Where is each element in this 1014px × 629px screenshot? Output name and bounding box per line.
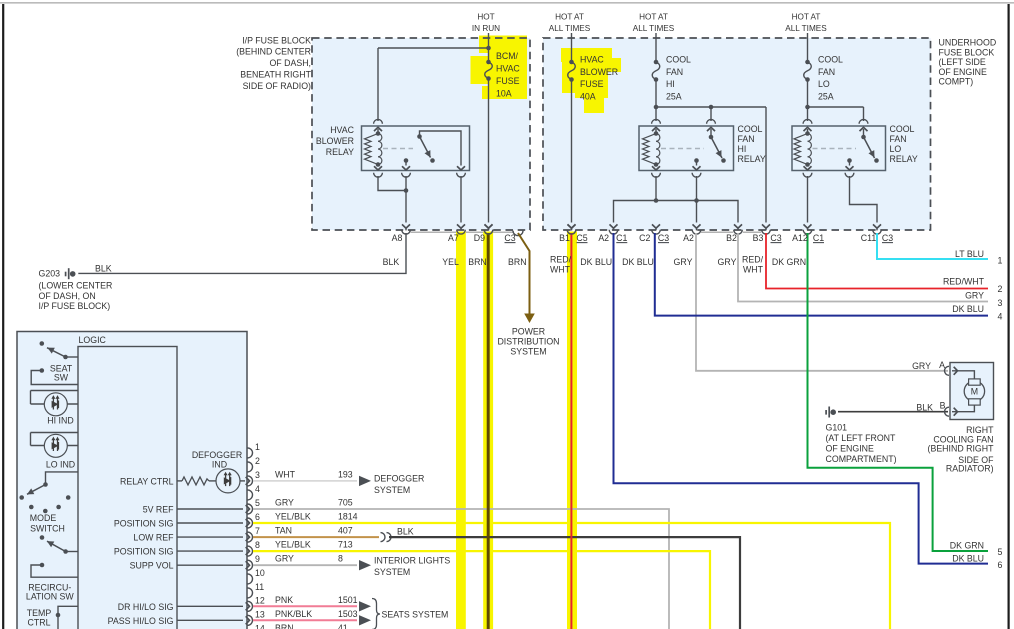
- svg-text:10A: 10A: [496, 88, 512, 98]
- svg-text:RED/WHT: RED/WHT: [943, 276, 985, 286]
- svg-text:POSITION SIG: POSITION SIG: [114, 547, 174, 557]
- svg-text:WHT: WHT: [743, 265, 764, 275]
- svg-text:41: 41: [338, 623, 348, 629]
- svg-text:B: B: [940, 400, 946, 410]
- svg-text:1: 1: [998, 255, 1003, 265]
- svg-text:1503: 1503: [338, 609, 358, 619]
- svg-text:FAN: FAN: [666, 67, 683, 77]
- svg-text:G101: G101: [826, 423, 848, 433]
- svg-text:HOT: HOT: [477, 13, 494, 22]
- svg-text:A2: A2: [598, 233, 609, 243]
- svg-text:BLOWER: BLOWER: [316, 136, 354, 146]
- svg-text:BRN: BRN: [275, 623, 294, 629]
- svg-text:3: 3: [255, 470, 260, 480]
- svg-text:ALL TIMES: ALL TIMES: [633, 24, 675, 33]
- svg-text:I/P FUSE BLOCK: I/P FUSE BLOCK: [242, 35, 311, 45]
- svg-text:C3: C3: [882, 233, 893, 243]
- svg-text:LO: LO: [818, 79, 830, 89]
- svg-text:GRY: GRY: [718, 257, 737, 267]
- svg-text:RELAY: RELAY: [890, 154, 918, 164]
- svg-text:RED/: RED/: [550, 255, 572, 265]
- svg-text:PNK/BLK: PNK/BLK: [275, 609, 312, 619]
- svg-text:LO: LO: [890, 144, 902, 154]
- svg-text:RELAY CTRL: RELAY CTRL: [120, 476, 174, 486]
- svg-text:I/P FUSE BLOCK): I/P FUSE BLOCK): [39, 301, 111, 311]
- svg-text:RED/: RED/: [742, 255, 764, 265]
- svg-text:C2: C2: [639, 233, 650, 243]
- svg-text:UNDERHOOD: UNDERHOOD: [939, 38, 997, 48]
- svg-text:RELAY: RELAY: [326, 147, 354, 157]
- svg-text:COMPT): COMPT): [939, 77, 974, 87]
- svg-text:BLK: BLK: [916, 403, 933, 413]
- svg-text:(BEHIND RIGHT: (BEHIND RIGHT: [928, 443, 995, 453]
- svg-text:ALL TIMES: ALL TIMES: [549, 24, 591, 33]
- svg-text:TAN: TAN: [275, 526, 292, 536]
- svg-text:2: 2: [998, 284, 1003, 294]
- svg-text:COMPARTMENT): COMPARTMENT): [826, 454, 897, 464]
- svg-text:DK BLU: DK BLU: [952, 304, 984, 314]
- svg-text:YEL/BLK: YEL/BLK: [275, 512, 311, 522]
- svg-text:SW: SW: [54, 373, 69, 383]
- svg-text:YEL/BLK: YEL/BLK: [275, 540, 311, 550]
- svg-text:GRY: GRY: [275, 498, 294, 508]
- svg-text:B3: B3: [753, 233, 764, 243]
- svg-text:LT BLU: LT BLU: [955, 249, 984, 259]
- svg-text:BLK: BLK: [397, 527, 414, 537]
- svg-text:RIGHT: RIGHT: [966, 425, 994, 435]
- svg-text:5: 5: [255, 498, 260, 508]
- svg-text:25A: 25A: [666, 92, 682, 102]
- svg-text:OF DASH,: OF DASH,: [269, 58, 311, 68]
- svg-text:SIDE OF RADIO): SIDE OF RADIO): [243, 81, 311, 91]
- svg-text:WHT: WHT: [550, 265, 571, 275]
- svg-text:C1: C1: [813, 233, 824, 243]
- svg-text:MODE: MODE: [30, 513, 57, 523]
- svg-text:(AT LEFT FRONT: (AT LEFT FRONT: [826, 433, 897, 443]
- svg-text:GRY: GRY: [275, 554, 294, 564]
- svg-text:OF ENGINE: OF ENGINE: [939, 67, 988, 77]
- svg-text:(LEFT SIDE: (LEFT SIDE: [939, 57, 986, 67]
- svg-text:TEMP: TEMP: [27, 608, 52, 618]
- svg-text:FAN: FAN: [738, 134, 755, 144]
- svg-text:A2: A2: [683, 233, 694, 243]
- svg-text:BCM/: BCM/: [496, 51, 519, 61]
- svg-text:C3: C3: [504, 233, 515, 243]
- svg-text:C11: C11: [861, 233, 877, 243]
- svg-text:8: 8: [255, 540, 260, 550]
- svg-text:5: 5: [998, 547, 1003, 557]
- svg-text:SUPP VOL: SUPP VOL: [130, 561, 174, 571]
- svg-text:DEFOGGER: DEFOGGER: [374, 474, 424, 484]
- svg-text:BLK: BLK: [383, 257, 400, 267]
- svg-text:GRY: GRY: [674, 257, 693, 267]
- svg-text:IN RUN: IN RUN: [472, 24, 500, 33]
- svg-text:HVAC: HVAC: [496, 63, 520, 73]
- svg-text:407: 407: [338, 526, 353, 536]
- svg-text:LOW REF: LOW REF: [133, 533, 174, 543]
- svg-text:IND: IND: [212, 460, 227, 470]
- svg-text:DK GRN: DK GRN: [772, 257, 806, 267]
- svg-text:C1: C1: [616, 233, 627, 243]
- svg-text:1: 1: [255, 442, 260, 452]
- svg-text:HI: HI: [666, 79, 675, 89]
- svg-text:(BEHIND CENTER: (BEHIND CENTER: [236, 47, 311, 57]
- svg-text:A12: A12: [792, 233, 808, 243]
- svg-text:11: 11: [255, 582, 264, 592]
- svg-text:SEATS SYSTEM: SEATS SYSTEM: [382, 609, 449, 619]
- svg-text:2: 2: [255, 456, 260, 466]
- svg-text:FUSE: FUSE: [580, 79, 604, 89]
- svg-text:40A: 40A: [580, 92, 596, 102]
- svg-text:B2: B2: [726, 233, 737, 243]
- svg-text:D9: D9: [474, 233, 485, 243]
- svg-text:FUSE: FUSE: [496, 76, 520, 86]
- svg-text:INTERIOR LIGHTS: INTERIOR LIGHTS: [374, 555, 450, 565]
- svg-text:HI: HI: [738, 144, 747, 154]
- svg-text:PASS HI/LO SIG: PASS HI/LO SIG: [108, 616, 174, 626]
- svg-text:SYSTEM: SYSTEM: [510, 347, 546, 357]
- svg-text:C3: C3: [658, 233, 669, 243]
- svg-text:C3: C3: [770, 233, 781, 243]
- svg-text:DR HI/LO SIG: DR HI/LO SIG: [118, 602, 174, 612]
- svg-text:B1: B1: [559, 233, 570, 243]
- svg-text:FAN: FAN: [890, 134, 907, 144]
- svg-text:DK BLU: DK BLU: [622, 257, 654, 267]
- svg-text:DK BLU: DK BLU: [580, 257, 612, 267]
- svg-text:ALL TIMES: ALL TIMES: [785, 24, 827, 33]
- svg-text:OF ENGINE: OF ENGINE: [826, 444, 875, 454]
- svg-text:SYSTEM: SYSTEM: [374, 567, 410, 577]
- svg-text:705: 705: [338, 498, 353, 508]
- svg-text:SWITCH: SWITCH: [30, 524, 65, 534]
- svg-text:DK GRN: DK GRN: [950, 540, 984, 550]
- svg-text:OF DASH, ON: OF DASH, ON: [39, 291, 96, 301]
- svg-text:A7: A7: [448, 233, 459, 243]
- svg-text:GRY: GRY: [912, 361, 931, 371]
- svg-text:LOGIC: LOGIC: [79, 335, 107, 345]
- svg-text:LO IND: LO IND: [46, 460, 75, 470]
- svg-text:GRY: GRY: [965, 291, 984, 301]
- svg-text:A: A: [939, 360, 945, 370]
- svg-text:RELAY: RELAY: [738, 154, 766, 164]
- svg-text:C5: C5: [576, 233, 587, 243]
- svg-text:5V REF: 5V REF: [143, 505, 174, 515]
- svg-text:COOL: COOL: [818, 54, 843, 64]
- svg-text:HOT AT: HOT AT: [792, 13, 821, 22]
- svg-text:12: 12: [255, 595, 265, 605]
- svg-text:6: 6: [255, 512, 260, 522]
- svg-text:BRN: BRN: [508, 257, 527, 267]
- svg-text:193: 193: [338, 469, 353, 479]
- svg-text:BLK: BLK: [95, 263, 112, 273]
- svg-text:BENEATH RIGHT: BENEATH RIGHT: [240, 70, 311, 80]
- svg-text:WHT: WHT: [275, 469, 296, 479]
- svg-text:4: 4: [998, 312, 1003, 322]
- svg-text:YEL: YEL: [442, 257, 459, 267]
- svg-text:CTRL: CTRL: [28, 618, 51, 628]
- svg-text:LATION SW: LATION SW: [26, 592, 74, 602]
- svg-text:DEFOGGER: DEFOGGER: [192, 450, 242, 460]
- svg-text:DISTRIBUTION: DISTRIBUTION: [497, 337, 559, 347]
- svg-text:9: 9: [255, 554, 260, 564]
- svg-text:HVAC: HVAC: [330, 125, 354, 135]
- svg-text:PNK: PNK: [275, 595, 293, 605]
- svg-text:4: 4: [255, 484, 260, 494]
- svg-text:POWER: POWER: [512, 327, 545, 337]
- svg-text:COOL: COOL: [666, 54, 691, 64]
- svg-text:HI IND: HI IND: [47, 416, 73, 426]
- svg-text:6: 6: [998, 560, 1003, 570]
- svg-text:(LOWER CENTER: (LOWER CENTER: [39, 281, 113, 291]
- svg-text:FAN: FAN: [818, 67, 835, 77]
- svg-text:10: 10: [255, 568, 265, 578]
- svg-text:SYSTEM: SYSTEM: [374, 485, 410, 495]
- svg-text:POSITION SIG: POSITION SIG: [114, 519, 174, 529]
- svg-text:G203: G203: [39, 268, 61, 278]
- svg-text:M: M: [971, 387, 978, 397]
- svg-text:1814: 1814: [338, 512, 358, 522]
- svg-text:COOL: COOL: [738, 124, 763, 134]
- svg-text:BRN: BRN: [468, 257, 487, 267]
- svg-text:713: 713: [338, 540, 353, 550]
- svg-text:BLOWER: BLOWER: [580, 67, 618, 77]
- svg-text:COOL: COOL: [890, 124, 915, 134]
- svg-text:7: 7: [255, 526, 260, 536]
- svg-text:HVAC: HVAC: [580, 54, 604, 64]
- svg-text:DK BLU: DK BLU: [952, 553, 984, 563]
- svg-text:HOT AT: HOT AT: [555, 13, 584, 22]
- svg-text:14: 14: [255, 623, 265, 629]
- svg-text:13: 13: [255, 609, 265, 619]
- svg-text:3: 3: [998, 298, 1003, 308]
- svg-text:25A: 25A: [818, 92, 834, 102]
- svg-text:A8: A8: [392, 233, 403, 243]
- svg-text:RADIATOR): RADIATOR): [946, 464, 994, 474]
- svg-text:FUSE BLOCK: FUSE BLOCK: [939, 47, 995, 57]
- svg-text:1501: 1501: [338, 595, 358, 605]
- svg-text:HOT AT: HOT AT: [639, 13, 668, 22]
- svg-text:8: 8: [338, 554, 343, 564]
